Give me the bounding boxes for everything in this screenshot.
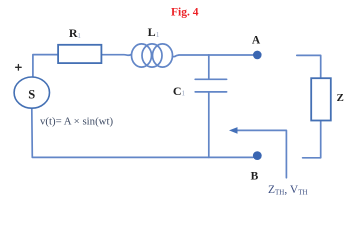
svg-text:A: A bbox=[252, 35, 261, 47]
svg-text:Fig. 4: Fig. 4 bbox=[171, 6, 199, 18]
svg-text:B: B bbox=[251, 170, 259, 182]
svg-text:Z: Z bbox=[337, 92, 344, 104]
svg-text:v(t)= A × sin(wt): v(t)= A × sin(wt) bbox=[40, 115, 113, 127]
svg-text:1: 1 bbox=[156, 30, 160, 39]
svg-text:L: L bbox=[148, 25, 156, 39]
svg-text:1: 1 bbox=[77, 31, 81, 40]
svg-text:C: C bbox=[173, 84, 182, 98]
svg-text:1: 1 bbox=[181, 89, 185, 98]
svg-text:S: S bbox=[28, 88, 35, 102]
